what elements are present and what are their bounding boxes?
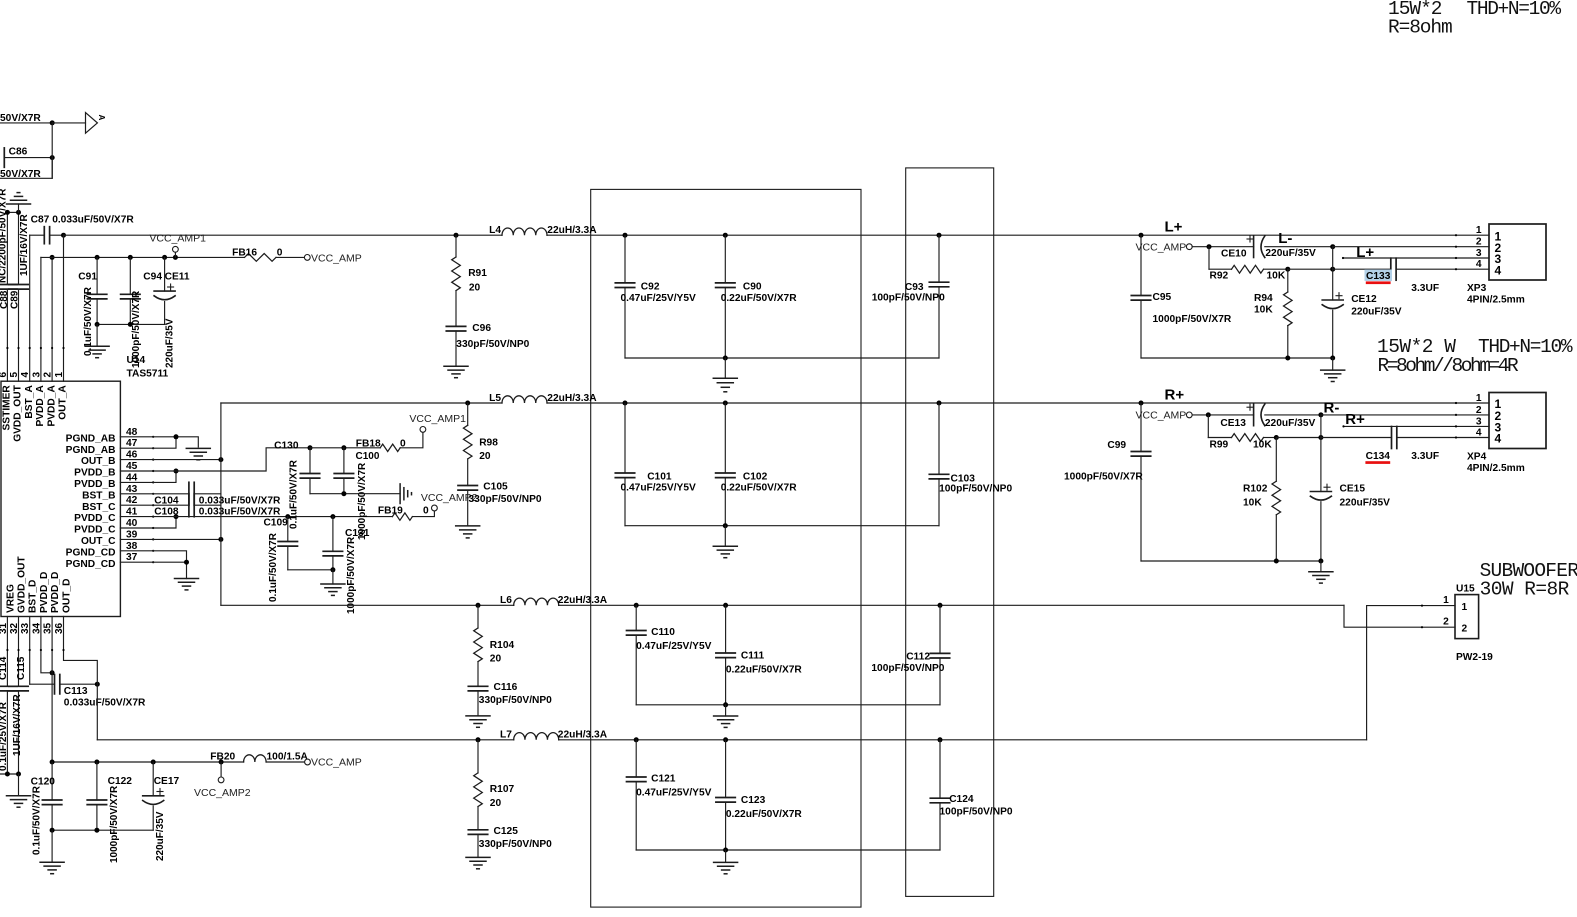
- wire L5 to XP4: [547, 402, 1489, 404]
- svg-text:GVDD_OUT: GVDD_OUT: [13, 384, 24, 441]
- svg-text:0.22uF/50V/X7R: 0.22uF/50V/X7R: [721, 483, 798, 494]
- svg-text:C110: C110: [651, 627, 675, 638]
- svg-text:220uF/35V: 220uF/35V: [164, 318, 175, 368]
- node CE12 bottom: [1330, 356, 1335, 361]
- svg-text:FB19: FB19: [378, 506, 403, 517]
- svg-text:PGND_AB: PGND_AB: [66, 445, 116, 456]
- resistor R98: [467, 403, 469, 425]
- wire pin37 stub join: [153, 561, 186, 563]
- node C121 top: [634, 737, 639, 742]
- terminal VCC_AMP2 bottom: [220, 762, 222, 777]
- svg-text:VCC_AMP: VCC_AMP: [1136, 410, 1187, 422]
- wire U14 pin3 PVDD_A up: [40, 257, 42, 381]
- svg-text:R94: R94: [1254, 293, 1273, 304]
- svg-text:R107: R107: [490, 784, 515, 795]
- svg-text:30W R=8R: 30W R=8R: [1480, 578, 1570, 600]
- wire PGND_AB to ground: [153, 437, 198, 447]
- svg-text:330pF/50V/NP0: 330pF/50V/NP0: [479, 839, 552, 850]
- wire row4 to CE12: [1288, 268, 1333, 270]
- svg-text:1UF/16V/X7R: 1UF/16V/X7R: [12, 694, 23, 756]
- wire FB20 to terminal: [266, 761, 305, 763]
- wire U14 pin1 OUT_A up: [63, 235, 65, 381]
- svg-text:50V/X7R: 50V/X7R: [0, 169, 41, 180]
- wire U14 pin4 BST_A up: [29, 235, 31, 381]
- capacitor C87: [43, 227, 45, 244]
- ground below C116: [466, 715, 490, 717]
- capacitor C125: [468, 829, 487, 831]
- wire FB16 to terminal: [276, 256, 304, 258]
- capacitor C131: [332, 517, 334, 552]
- svg-text:C93: C93: [905, 282, 924, 293]
- svg-text:0.22uF/50V/X7R: 0.22uF/50V/X7R: [726, 664, 803, 675]
- node OUT_B: [218, 457, 223, 462]
- node L- junction: [1330, 244, 1335, 249]
- svg-text:C96: C96: [472, 323, 491, 334]
- wire CE10 to L- node: [1265, 246, 1333, 248]
- capacitor CE17 (polarized): [152, 762, 154, 796]
- capacitor C93: [938, 235, 940, 282]
- svg-text:0.22uF/50V/X7R: 0.22uF/50V/X7R: [721, 293, 798, 304]
- svg-text:40: 40: [126, 518, 138, 529]
- connector XP4 body: [1489, 393, 1546, 449]
- capacitor C104 (BST_B): [153, 493, 189, 495]
- wire pin31 VREG down: [6, 617, 8, 687]
- node C120 top: [50, 760, 55, 765]
- wire row4 to C134: [1321, 437, 1392, 439]
- wire R- to XP4 pin2: [1321, 414, 1489, 416]
- svg-text:20: 20: [490, 654, 502, 665]
- node C110 top: [634, 603, 639, 608]
- svg-text:10K: 10K: [1253, 439, 1272, 450]
- wire GVDD_OUT pin5 upper: [18, 212, 20, 284]
- svg-text:330pF/50V/NP0: 330pF/50V/NP0: [469, 494, 542, 505]
- node VCC/R92: [1207, 244, 1212, 249]
- svg-text:37: 37: [126, 552, 138, 563]
- wire CE10/CE12 link: [1332, 247, 1334, 270]
- wire filter3 gnd rail: [636, 704, 940, 706]
- wire vertical A net: [51, 123, 53, 178]
- wire FB19 to VCC_AMP2 terminal: [412, 511, 434, 517]
- svg-text:0.1uF/50V/X7R: 0.1uF/50V/X7R: [32, 785, 43, 855]
- pin 38 PGND_CD stub: [120, 550, 153, 552]
- svg-text:U14: U14: [127, 355, 146, 366]
- svg-text:PGND_CD: PGND_CD: [66, 559, 116, 570]
- svg-text:C86: C86: [9, 146, 28, 157]
- node PVDD_D join: [50, 670, 55, 675]
- node C101 top: [623, 401, 628, 406]
- wire PVDD_B pins jog: [153, 471, 176, 482]
- terminal VCC_AMP bottom: [305, 759, 311, 765]
- svg-text:46: 46: [126, 450, 138, 461]
- ferrite bead FB18: [380, 444, 400, 451]
- svg-text:PVDD_A: PVDD_A: [46, 385, 57, 427]
- resistor R94: [1287, 269, 1289, 292]
- wire pin33 to C113: [30, 683, 55, 685]
- svg-text:PGND_AB: PGND_AB: [66, 433, 116, 444]
- svg-text:5: 5: [9, 372, 20, 378]
- svg-text:3: 3: [31, 372, 42, 378]
- wire C130-C100 row: [310, 447, 380, 449]
- node C123 top: [723, 737, 728, 742]
- terminal VCC_AMP XP4: [1186, 412, 1192, 418]
- svg-text:FB20: FB20: [210, 752, 235, 763]
- ferrite bead FB16: [245, 253, 277, 261]
- node R102 bottom: [1274, 559, 1279, 564]
- capacitor C101: [624, 403, 626, 473]
- svg-text:1: 1: [54, 372, 65, 378]
- svg-text:220uF/35V: 220uF/35V: [1265, 418, 1316, 429]
- svg-text:2: 2: [43, 372, 54, 378]
- wire OUT_B to bus: [153, 459, 221, 461]
- node FB20 tap: [219, 760, 224, 765]
- svg-text:OUT_A: OUT_A: [58, 385, 69, 420]
- wire XP3 gnd rail: [1141, 357, 1333, 359]
- wire R92 drop: [1208, 247, 1210, 270]
- svg-text:C99: C99: [1107, 440, 1126, 451]
- svg-text:0.033uF/50V/X7R: 0.033uF/50V/X7R: [199, 507, 281, 518]
- node PVDD_C: [174, 514, 179, 519]
- capacitor C100: [343, 448, 345, 474]
- node C100 top: [341, 445, 346, 450]
- svg-text:C130: C130: [274, 440, 299, 451]
- svg-text:20: 20: [490, 798, 502, 809]
- wire pin47 jog: [153, 437, 176, 448]
- svg-text:22uH/3.3A: 22uH/3.3A: [547, 225, 597, 236]
- pin 37 PGND_CD stub: [120, 561, 153, 563]
- wire VCC to CE13: [1192, 414, 1253, 416]
- wire pin32 GVDD_OUT down: [18, 617, 20, 687]
- svg-text:OUT_D: OUT_D: [61, 578, 72, 613]
- svg-text:4PIN/2.5mm: 4PIN/2.5mm: [1467, 463, 1525, 474]
- wire pin36 OUT_D down: [64, 617, 98, 740]
- group box right: [906, 168, 994, 897]
- connector XP3 body: [1489, 224, 1546, 280]
- wire VCC_AMP1 row: [41, 256, 245, 258]
- ic U14 TAS5711 body: [1, 381, 120, 616]
- node CE15 bottom: [1318, 559, 1323, 564]
- svg-text:4: 4: [1495, 263, 1502, 277]
- svg-text:XP3: XP3: [1467, 283, 1487, 294]
- svg-text:VCC_AMP: VCC_AMP: [311, 252, 362, 264]
- capacitor C99: [1140, 403, 1142, 452]
- capacitor C114: [0, 685, 17, 687]
- svg-text:R+: R+: [1165, 386, 1185, 403]
- wire cap bottom rail: [97, 323, 165, 325]
- node R107 top: [476, 737, 481, 742]
- svg-text:1: 1: [1476, 393, 1482, 404]
- svg-text:2: 2: [1476, 237, 1482, 248]
- node R94 top: [1285, 267, 1290, 272]
- wire gnd row: [7, 211, 18, 213]
- off-page connector A (triangle): [86, 113, 98, 134]
- svg-text:0: 0: [423, 506, 429, 517]
- svg-text:PVDD_D: PVDD_D: [50, 572, 61, 613]
- wire OUT_A / L+ row: [64, 234, 503, 236]
- svg-text:R92: R92: [1210, 270, 1229, 281]
- pin 39 OUT_C stub: [120, 538, 153, 540]
- node C130 top: [308, 445, 313, 450]
- ground PGND_AB: [186, 447, 210, 449]
- wire R99 drop: [1207, 415, 1209, 438]
- node C115 bottom: [16, 772, 21, 777]
- svg-text:L7: L7: [500, 730, 512, 741]
- svg-text:GVDD_OUT: GVDD_OUT: [16, 556, 27, 613]
- pin 45 PVDD_B stub: [120, 470, 153, 472]
- ground below C131: [332, 570, 334, 584]
- svg-text:C94: C94: [143, 272, 162, 283]
- svg-text:R99: R99: [1210, 439, 1229, 450]
- wire pin35 PVDD_D down to VCC row: [51, 617, 53, 763]
- svg-text:R102: R102: [1243, 483, 1268, 494]
- capacitor C133 (series): [1390, 258, 1392, 280]
- svg-text:VCC_AMP1: VCC_AMP1: [149, 233, 206, 245]
- ground below C115 row: [18, 774, 20, 796]
- svg-text:PVDD_C: PVDD_C: [74, 525, 116, 536]
- node PGND_AB: [174, 434, 179, 439]
- wire C89 to U14 pin 5: [18, 289, 20, 381]
- capacitor C109: [287, 517, 289, 542]
- node C131 bottom: [330, 567, 335, 572]
- svg-text:R98: R98: [479, 438, 498, 449]
- terminal VCC_AMP1 right: [420, 427, 426, 433]
- svg-text:FB18: FB18: [356, 438, 381, 449]
- wire L4 to XP3: [547, 234, 1489, 236]
- svg-text:22uH/3.3A: 22uH/3.3A: [558, 595, 608, 606]
- inductor L7: [514, 733, 559, 740]
- group box left: [591, 189, 861, 907]
- wire SSTIMER pin6 upper: [6, 212, 8, 284]
- ground filter4: [725, 850, 727, 862]
- svg-text:C116: C116: [494, 682, 518, 693]
- wire C134 to XP4 pin4: [1397, 437, 1489, 439]
- node VCC_AMP1 stub: [173, 255, 178, 260]
- resistor R102: [1275, 438, 1277, 482]
- svg-text:C124: C124: [949, 794, 974, 805]
- svg-text:C111: C111: [741, 651, 765, 662]
- capacitor C123: [725, 740, 727, 798]
- wire R92 to R94 node: [1264, 268, 1288, 270]
- svg-text:0.1uF/50V/X7R: 0.1uF/50V/X7R: [268, 532, 279, 602]
- node CE15 top: [1318, 435, 1323, 440]
- svg-text:C90: C90: [743, 281, 762, 292]
- wire filter2 gnd rail: [625, 525, 939, 527]
- capacitor C90: [724, 235, 726, 283]
- ground (inverted) top-left: [18, 204, 20, 212]
- svg-text:0.47uF/25V/Y5V: 0.47uF/25V/Y5V: [621, 483, 697, 494]
- svg-text:R+: R+: [1345, 411, 1365, 428]
- svg-text:L+: L+: [1356, 244, 1374, 261]
- wire to off-page flag: [52, 122, 85, 124]
- wire decoupling gnd rail: [310, 493, 400, 495]
- svg-text:PVDD_A: PVDD_A: [35, 385, 46, 427]
- svg-text:PW2-19: PW2-19: [1456, 652, 1493, 663]
- wire OUT_D / L7 row: [97, 739, 513, 741]
- svg-text:1000pF/50V/X7R: 1000pF/50V/X7R: [1153, 314, 1232, 325]
- ground PGND_CD: [175, 578, 199, 580]
- pin 47 PGND_AB stub: [120, 447, 153, 449]
- wire OUT_C to bus: [153, 538, 221, 540]
- connector U15 PW2-19 body: [1455, 595, 1479, 639]
- svg-text:C133: C133: [1366, 271, 1391, 282]
- pin 42 BST_C stub: [120, 504, 153, 506]
- svg-text:100pF/50V/NP0: 100pF/50V/NP0: [940, 807, 1013, 818]
- svg-text:42: 42: [126, 495, 138, 506]
- svg-text:R91: R91: [468, 268, 487, 279]
- svg-text:C114: C114: [0, 656, 9, 680]
- svg-text:VREG: VREG: [5, 584, 16, 613]
- node C111 top: [723, 603, 728, 608]
- svg-text:L5: L5: [489, 393, 501, 404]
- svg-text:1UF/16V/X7R: 1UF/16V/X7R: [19, 214, 30, 276]
- node CE11 top: [162, 255, 167, 260]
- capacitor C94: [129, 257, 131, 294]
- svg-text:BST_D: BST_D: [28, 580, 39, 613]
- svg-text:VCC_AMP: VCC_AMP: [1136, 241, 1187, 253]
- svg-text:C91: C91: [78, 272, 97, 283]
- ground (sideways) decoupling: [399, 484, 401, 504]
- wire filter1 gnd rail: [625, 357, 939, 359]
- capacitor C89 plates: [9, 284, 28, 286]
- capacitor C124: [939, 740, 941, 798]
- svg-text:CE17: CE17: [154, 776, 180, 787]
- wire pin33 BST_D down: [29, 617, 31, 685]
- wire bottom return: [0, 158, 52, 179]
- svg-text:220uF/35V: 220uF/35V: [1351, 306, 1402, 317]
- svg-text:R-: R-: [1324, 400, 1340, 417]
- svg-text:3.3UF: 3.3UF: [1411, 283, 1439, 294]
- svg-text:47: 47: [126, 438, 138, 449]
- svg-text:1: 1: [1476, 225, 1482, 236]
- svg-text:10K: 10K: [1243, 498, 1262, 509]
- ground below C91: [96, 324, 98, 346]
- node C100 bottom: [341, 491, 346, 496]
- node C112 top: [938, 603, 943, 608]
- wire C87 to OUT_A node: [50, 234, 64, 236]
- svg-text:FB16: FB16: [232, 248, 257, 259]
- capacitor CE10 (polarized): [1253, 236, 1255, 258]
- capacitor CE11 (polarized): [164, 257, 166, 291]
- svg-text:C113: C113: [64, 686, 88, 697]
- node C102 bottom: [723, 523, 728, 528]
- capacitor C91: [96, 257, 98, 294]
- wire OUT_B/OUT_C vertical bus: [220, 403, 222, 605]
- svg-text:PVDD_B: PVDD_B: [74, 468, 115, 479]
- svg-text:PGND_CD: PGND_CD: [66, 547, 116, 558]
- svg-text:BST_A: BST_A: [24, 385, 35, 419]
- terminal VCC_AMP XP3: [1186, 244, 1192, 250]
- node C123 bottom: [723, 848, 728, 853]
- wire CE13/CE15 link: [1320, 415, 1322, 438]
- node R91 top: [454, 233, 459, 238]
- capacitor C112: [939, 605, 941, 653]
- node C99 top: [1139, 401, 1144, 406]
- svg-text:A: A: [97, 115, 106, 121]
- wire row4 to C133: [1333, 268, 1391, 270]
- capacitor C110: [635, 605, 637, 630]
- capacitor CE13 (polarized): [1253, 404, 1255, 426]
- svg-text:0.033uF/50V/X7R: 0.033uF/50V/X7R: [52, 215, 134, 226]
- wire L7 up to U15 pin1: [1367, 606, 1455, 740]
- svg-text:BST_C: BST_C: [82, 502, 116, 513]
- capacitor C96: [446, 325, 465, 327]
- ground filter3: [725, 705, 727, 716]
- node C120 bottom: [50, 828, 55, 833]
- svg-text:100pF/50V/NP0: 100pF/50V/NP0: [939, 484, 1012, 495]
- svg-text:4PIN/2.5mm: 4PIN/2.5mm: [1467, 295, 1525, 306]
- node junction A: [50, 120, 55, 125]
- ground below C105: [456, 525, 480, 527]
- svg-text:4: 4: [20, 372, 31, 378]
- node C111 bottom: [723, 702, 728, 707]
- capacitor C102: [724, 403, 726, 473]
- pin 40 PVDD_C stub: [120, 527, 153, 529]
- svg-text:6: 6: [0, 372, 9, 378]
- node CE12 top: [1330, 267, 1335, 272]
- svg-text:220uF/35V: 220uF/35V: [155, 811, 166, 861]
- ground filter1: [724, 358, 726, 378]
- svg-text:2: 2: [1462, 624, 1468, 635]
- svg-text:R=8ohm: R=8ohm: [1388, 16, 1452, 38]
- svg-text:NC/2200pF/50V/X7R: NC/2200pF/50V/X7R: [0, 188, 9, 283]
- capacitor C134 (series): [1391, 427, 1393, 449]
- svg-text:220uF/35V: 220uF/35V: [1265, 248, 1316, 259]
- terminal VCC_AMP2 mid: [432, 505, 438, 511]
- wire pin34 PVDD_D down: [41, 617, 52, 673]
- svg-text:0: 0: [277, 248, 283, 259]
- node R98 top: [465, 401, 470, 406]
- svg-text:38: 38: [126, 541, 138, 552]
- svg-text:C120: C120: [31, 776, 56, 787]
- svg-text:C100: C100: [356, 451, 380, 462]
- ground below C125: [466, 856, 490, 858]
- svg-text:C92: C92: [641, 281, 660, 292]
- svg-text:1000pF/50V/X7R: 1000pF/50V/X7R: [109, 785, 120, 863]
- inductor FB20: [244, 755, 267, 762]
- node C94 top: [128, 255, 133, 260]
- svg-text:C102: C102: [743, 471, 768, 482]
- wire row4 to CE15: [1276, 437, 1321, 439]
- inductor L5: [502, 396, 547, 403]
- wire L6 to subwoofer: [559, 604, 1344, 606]
- svg-text:1000pF/50V/X7R: 1000pF/50V/X7R: [346, 536, 357, 614]
- terminal VCC_AMP right of FB16: [304, 255, 310, 261]
- node R94 bottom: [1285, 356, 1290, 361]
- svg-text:C134: C134: [1366, 451, 1391, 462]
- wire R99 to R102 node: [1264, 437, 1277, 439]
- svg-text:0.1uF/25V/X7R: 0.1uF/25V/X7R: [0, 701, 9, 771]
- svg-text:0.1uF/50V/X7R: 0.1uF/50V/X7R: [289, 459, 300, 529]
- node C109 top: [285, 514, 290, 519]
- wire XP4 gnd rail: [1141, 560, 1321, 562]
- wire L6 jog down to U15 pin2: [1344, 605, 1455, 627]
- svg-text:C122: C122: [108, 776, 133, 787]
- wire R+ branch row3: [1344, 425, 1490, 427]
- node C124 top: [938, 737, 943, 742]
- svg-text:10K: 10K: [1254, 305, 1273, 316]
- svg-text:100/1.5A: 100/1.5A: [267, 752, 309, 763]
- node C90 bottom: [723, 356, 728, 361]
- svg-text:0.033uF/50V/X7R: 0.033uF/50V/X7R: [64, 698, 146, 709]
- svg-text:10K: 10K: [1267, 270, 1286, 281]
- svg-text:SSTIMER: SSTIMER: [2, 385, 13, 431]
- svg-text:0.47uF/25V/Y5V: 0.47uF/25V/Y5V: [636, 788, 712, 799]
- svg-text:CE11: CE11: [165, 272, 190, 283]
- svg-text:22uH/3.3A: 22uH/3.3A: [547, 393, 597, 404]
- pin 44 PVDD_B stub: [120, 481, 153, 483]
- node PVDD_B: [174, 469, 179, 474]
- node C90 top: [723, 233, 728, 238]
- svg-text:VCC_AMP2: VCC_AMP2: [194, 787, 251, 799]
